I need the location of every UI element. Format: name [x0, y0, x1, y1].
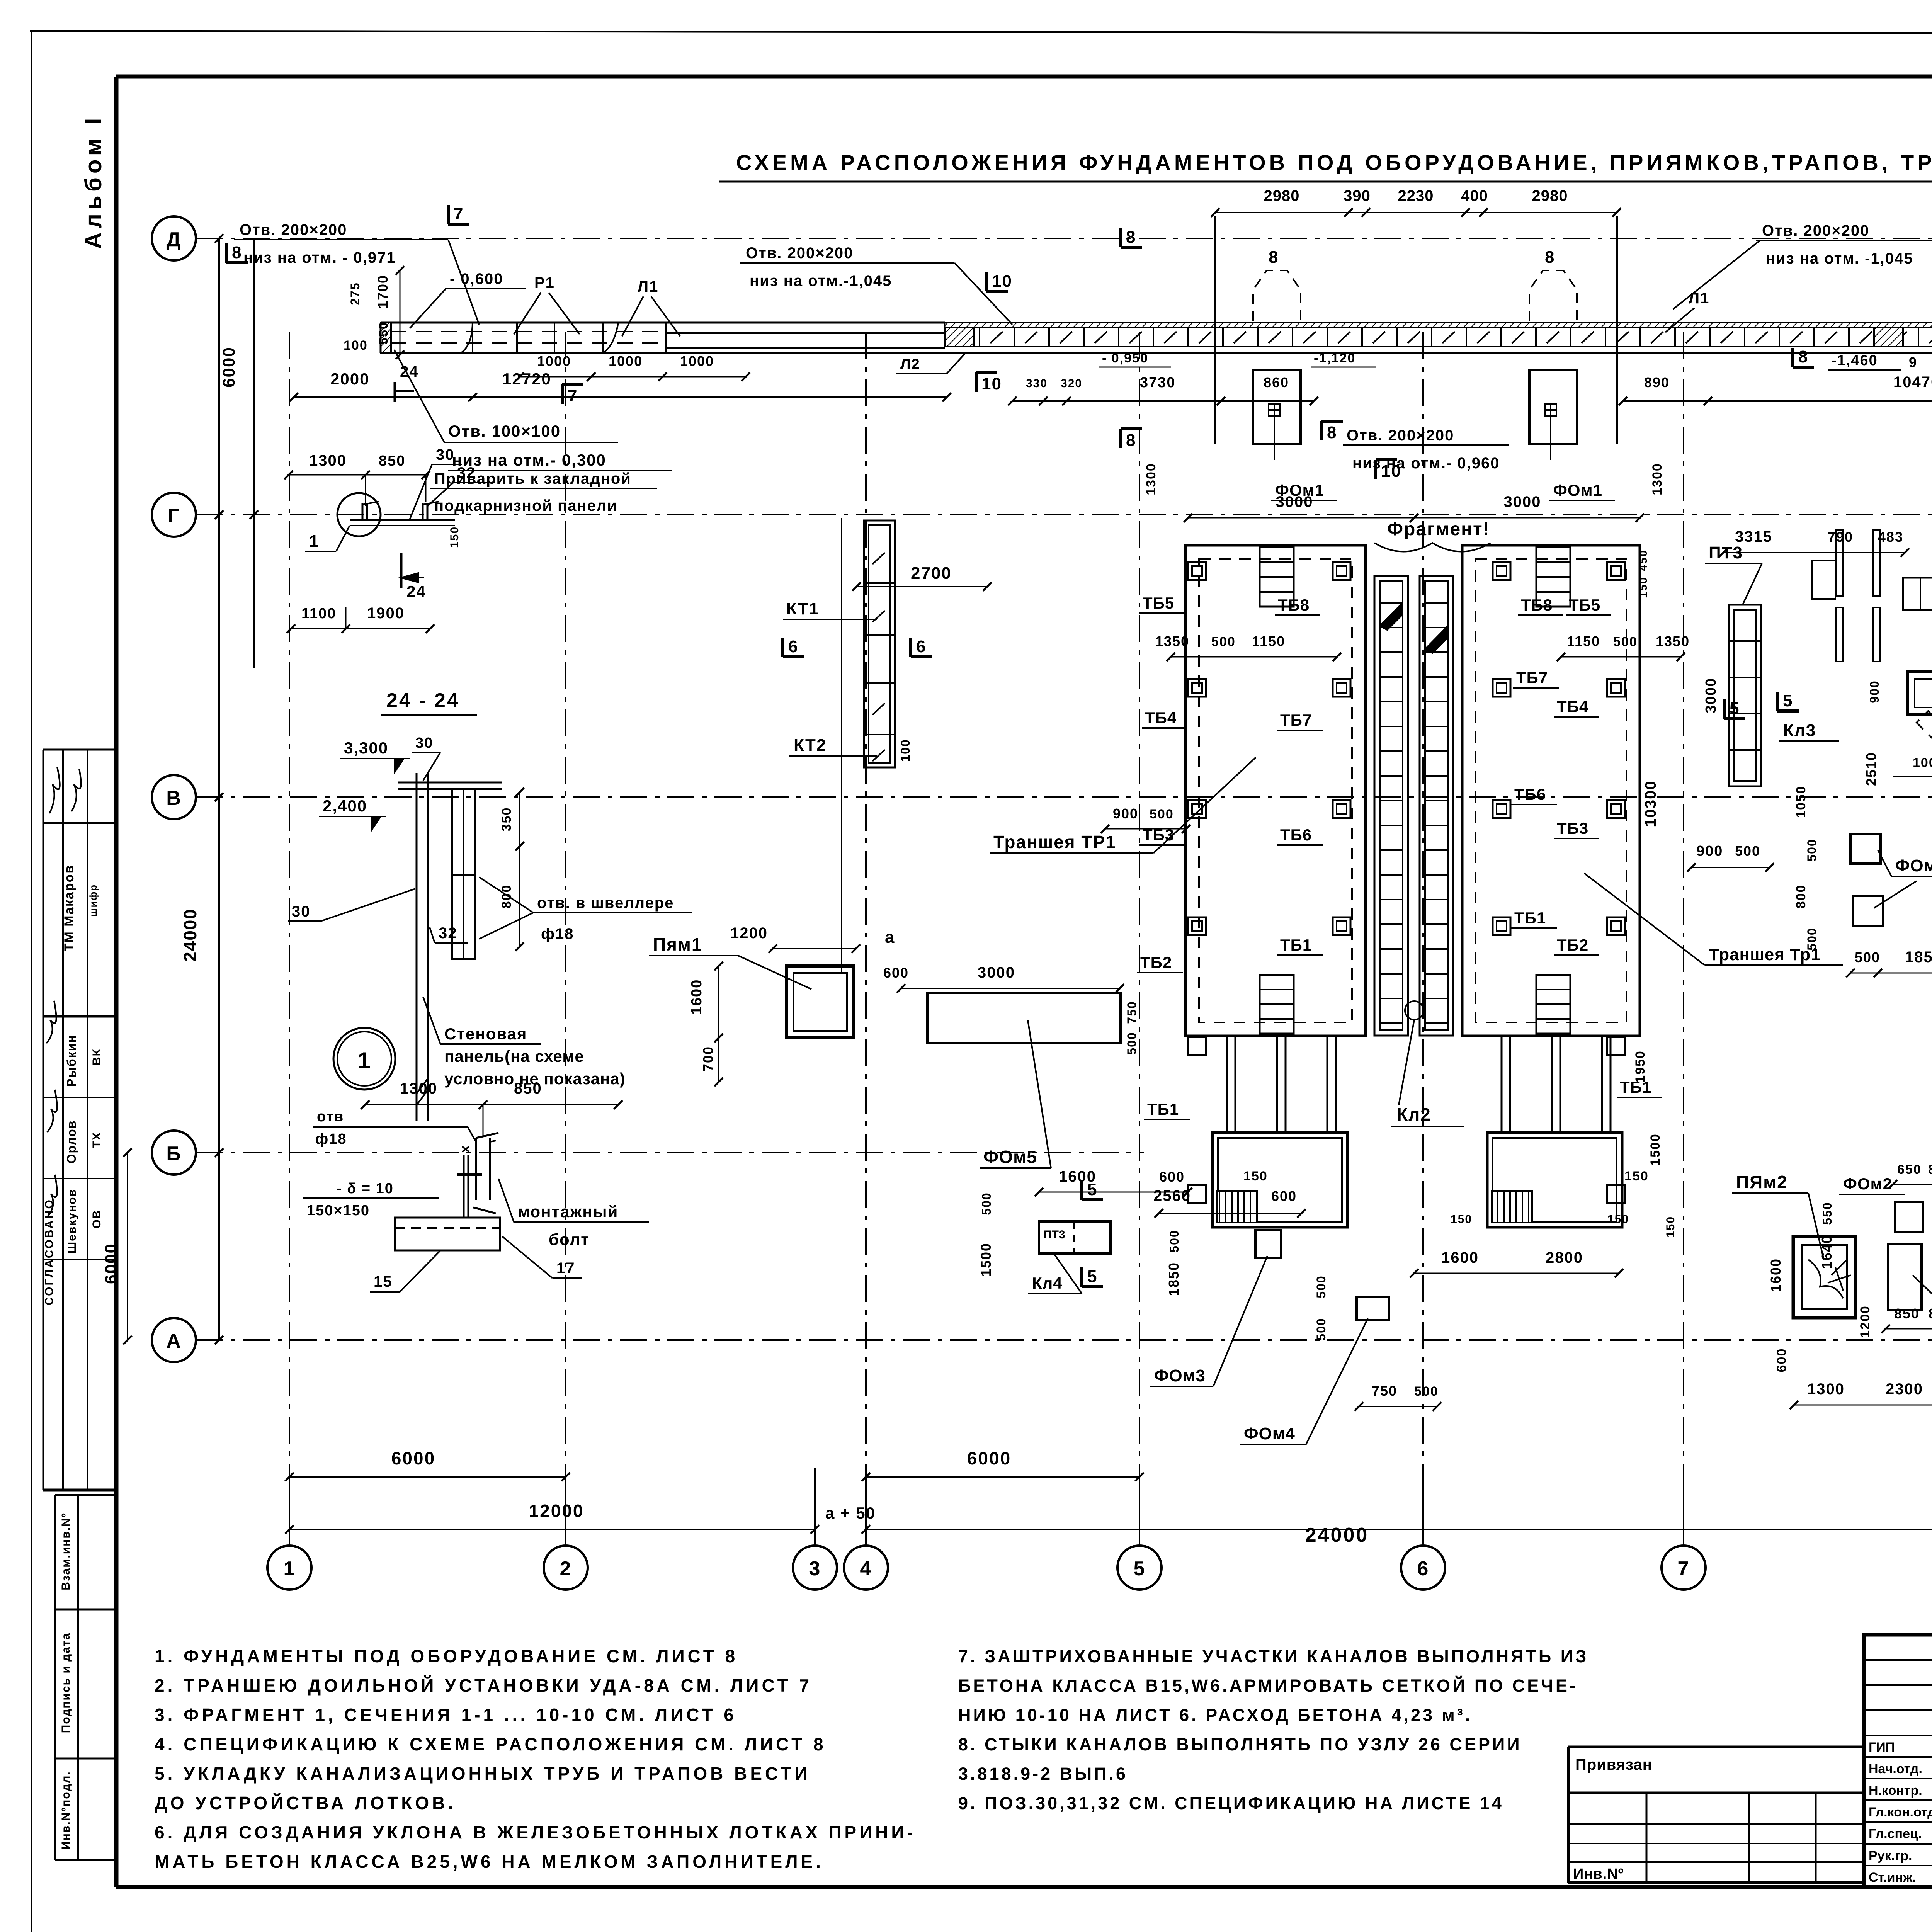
svg-text:Траншея ТР1: Траншея ТР1: [993, 832, 1116, 852]
svg-text:8: 8: [1269, 248, 1279, 267]
svg-text:-1,120: -1,120: [1314, 351, 1355, 366]
svg-text:483: 483: [1878, 529, 1903, 545]
svg-text:Рук.гр.: Рук.гр.: [1869, 1849, 1912, 1863]
svg-text:1: 1: [284, 1558, 296, 1580]
svg-text:30: 30: [415, 735, 433, 751]
svg-text:10300: 10300: [1642, 780, 1659, 827]
svg-text:1150: 1150: [1252, 633, 1285, 649]
svg-text:шифр: шифр: [87, 884, 99, 917]
svg-text:2700: 2700: [911, 564, 952, 583]
svg-text:Б: Б: [166, 1143, 181, 1165]
svg-text:600: 600: [1159, 1169, 1185, 1185]
svg-text:3730: 3730: [1140, 374, 1176, 391]
svg-text:ТБ4: ТБ4: [1145, 709, 1177, 727]
svg-text:5. УКЛАДКУ КАНАЛИЗАЦИОННЫХ ТРУ: 5. УКЛАДКУ КАНАЛИЗАЦИОННЫХ ТРУБ И ТРАПОВ…: [155, 1764, 810, 1784]
svg-text:5: 5: [1730, 699, 1740, 718]
svg-text:6000: 6000: [102, 1243, 121, 1284]
svg-text:1100: 1100: [301, 605, 336, 622]
svg-text:ф18: ф18: [541, 925, 574, 942]
svg-text:150×150: 150×150: [307, 1202, 370, 1219]
svg-text:-1,460: -1,460: [1832, 352, 1878, 369]
svg-text:ТХ: ТХ: [90, 1132, 103, 1148]
svg-text:ФОм5: ФОм5: [983, 1147, 1037, 1167]
svg-text:Взам.инв.Nº: Взам.инв.Nº: [60, 1512, 72, 1590]
svg-text:Отв. 200×200: Отв. 200×200: [240, 221, 347, 238]
svg-text:3000: 3000: [1276, 493, 1313, 510]
svg-text:800: 800: [499, 884, 514, 909]
svg-text:2510: 2510: [1863, 752, 1879, 786]
svg-text:монтажный: монтажный: [518, 1202, 618, 1221]
svg-text:ТБ7: ТБ7: [1516, 668, 1548, 687]
svg-text:15: 15: [374, 1273, 393, 1290]
svg-text:2: 2: [560, 1558, 572, 1580]
svg-text:24 - 24: 24 - 24: [386, 689, 460, 712]
svg-text:500: 500: [1125, 1032, 1139, 1054]
svg-text:панель(на схеме: панель(на схеме: [444, 1047, 584, 1065]
svg-text:1300: 1300: [1807, 1381, 1845, 1398]
svg-text:30: 30: [436, 446, 455, 463]
svg-text:8: 8: [232, 243, 242, 262]
svg-text:6: 6: [788, 637, 798, 656]
svg-text:550: 550: [376, 321, 390, 344]
svg-text:500: 500: [1414, 1384, 1439, 1399]
svg-text:Д: Д: [166, 228, 181, 251]
svg-text:2. ТРАНШЕЮ ДОИЛЬНОЙ УСТАНОВКИ: 2. ТРАНШЕЮ ДОИЛЬНОЙ УСТАНОВКИ УДА-8А СМ.…: [155, 1675, 812, 1696]
svg-text:750: 750: [1372, 1383, 1397, 1399]
svg-text:Отв. 200×200: Отв. 200×200: [1347, 427, 1454, 444]
svg-text:3. ФРАГМЕНТ 1, СЕЧЕНИЯ 1-1 ...: 3. ФРАГМЕНТ 1, СЕЧЕНИЯ 1-1 ... 10-10 СМ.…: [155, 1705, 737, 1725]
svg-text:низ на отм.- 0,960: низ на отм.- 0,960: [1352, 455, 1500, 472]
svg-text:3000: 3000: [1504, 493, 1541, 510]
svg-text:Отв. 200×200: Отв. 200×200: [746, 245, 853, 262]
svg-text:СХЕМА РАСПОЛОЖЕНИЯ ФУНДАМ: СХЕМА РАСПОЛОЖЕНИЯ ФУНДАМЕНТОВ ПОД ОБОРУ…: [736, 150, 1932, 175]
svg-text:Нач.отд.: Нач.отд.: [1869, 1762, 1922, 1776]
svg-text:100: 100: [344, 338, 368, 353]
svg-text:3.818.9-2 ВЫП.6: 3.818.9-2 ВЫП.6: [958, 1764, 1128, 1784]
svg-text:4: 4: [860, 1558, 872, 1580]
svg-text:7: 7: [1678, 1558, 1690, 1580]
svg-text:850: 850: [1894, 1306, 1920, 1321]
svg-text:150: 150: [1243, 1169, 1268, 1184]
svg-text:низ на отм. - 0,971: низ на отм. - 0,971: [243, 249, 396, 266]
svg-text:Рыбкин: Рыбкин: [65, 1034, 78, 1087]
svg-text:1350: 1350: [1656, 633, 1690, 649]
svg-text:ТБ1: ТБ1: [1280, 936, 1312, 954]
svg-text:А: А: [166, 1330, 182, 1352]
svg-text:ф18: ф18: [315, 1131, 347, 1147]
svg-text:ТБ5: ТБ5: [1569, 596, 1600, 614]
svg-text:ТБ6: ТБ6: [1280, 826, 1312, 844]
svg-text:600: 600: [883, 965, 909, 981]
svg-text:150: 150: [1637, 577, 1650, 598]
svg-text:8: 8: [1545, 248, 1555, 267]
svg-text:390: 390: [1344, 187, 1371, 204]
svg-text:ФОм1: ФОм1: [1553, 481, 1602, 499]
svg-text:750: 750: [1125, 1001, 1139, 1024]
svg-text:1700: 1700: [375, 275, 391, 309]
svg-text:Фрагмент!: Фрагмент!: [1387, 519, 1490, 539]
svg-text:12720: 12720: [502, 370, 551, 388]
svg-text:Инв.Nºподл.: Инв.Nºподл.: [60, 1771, 72, 1850]
svg-text:Траншея Тр1: Траншея Тр1: [1709, 945, 1821, 964]
svg-text:низ на отм. -1,045: низ на отм. -1,045: [1766, 250, 1913, 267]
svg-text:Л1: Л1: [1689, 290, 1709, 307]
svg-text:Инв.Nº: Инв.Nº: [1573, 1866, 1624, 1882]
svg-text:500: 500: [980, 1192, 993, 1215]
svg-text:ТБ7: ТБ7: [1280, 711, 1312, 729]
svg-text:2230: 2230: [1398, 187, 1434, 204]
svg-text:ФОм4: ФОм4: [1244, 1424, 1295, 1443]
svg-text:НИЮ 10-10 НА ЛИСТ 6. РАСХОД БЕ: НИЮ 10-10 НА ЛИСТ 6. РАСХОД БЕТОНА 4,23 …: [958, 1705, 1472, 1725]
svg-text:Привязан: Привязан: [1575, 1756, 1652, 1773]
svg-text:ТБ8: ТБ8: [1278, 596, 1310, 614]
svg-text:650: 650: [1897, 1162, 1922, 1177]
svg-text:24000: 24000: [1305, 1524, 1369, 1546]
svg-text:ПЯм2: ПЯм2: [1736, 1172, 1788, 1192]
svg-text:ДО УСТРОЙСТВА ЛОТКОВ.: ДО УСТРОЙСТВА ЛОТКОВ.: [155, 1793, 456, 1813]
svg-text:800: 800: [1928, 1162, 1932, 1177]
svg-text:330: 330: [1026, 377, 1048, 390]
svg-text:3: 3: [809, 1558, 821, 1580]
svg-text:800: 800: [1929, 1306, 1932, 1321]
svg-text:ТБ1: ТБ1: [1147, 1100, 1179, 1118]
svg-text:500: 500: [1314, 1318, 1328, 1340]
svg-text:Пям1: Пям1: [653, 934, 702, 954]
svg-text:350: 350: [499, 807, 514, 832]
svg-text:ТМ Макаров: ТМ Макаров: [62, 865, 77, 952]
svg-text:МАТЬ БЕТОН КЛАССА В25,W6 НА М: МАТЬ БЕТОН КЛАССА В25,W6 НА МЕЛКОМ ЗАПОЛ…: [155, 1852, 824, 1872]
svg-text:ТБ2: ТБ2: [1557, 936, 1588, 954]
svg-text:1600: 1600: [689, 979, 705, 1015]
svg-text:БЕТОНА КЛАССА В15,W6.АРМИРОВАТ: БЕТОНА КЛАССА В15,W6.АРМИРОВАТЬ СЕТКОЙ П…: [958, 1676, 1578, 1696]
svg-text:30: 30: [292, 903, 311, 920]
svg-text:Р1: Р1: [534, 274, 555, 291]
svg-text:900: 900: [1867, 680, 1881, 703]
svg-text:Стеновая: Стеновая: [444, 1025, 527, 1043]
svg-text:10470: 10470: [1893, 374, 1932, 391]
svg-text:9. ПОЗ.30,31,32 СМ. СПЕЦИФИКАЦ: 9. ПОЗ.30,31,32 СМ. СПЕЦИФИКАЦИЮ НА ЛИСТ…: [958, 1793, 1504, 1813]
svg-text:32: 32: [439, 925, 457, 942]
svg-text:1. ФУНДАМЕНТЫ ПОД ОБОРУДОВАНИЕ: 1. ФУНДАМЕНТЫ ПОД ОБОРУДОВАНИЕ СМ. ЛИСТ …: [155, 1646, 738, 1666]
svg-text:1350: 1350: [1155, 633, 1189, 649]
svg-text:1300: 1300: [1144, 463, 1158, 495]
svg-text:- 0,950: - 0,950: [1102, 351, 1148, 366]
svg-text:1050: 1050: [1794, 786, 1808, 818]
svg-text:150: 150: [1624, 1169, 1649, 1184]
svg-text:2980: 2980: [1532, 187, 1568, 204]
svg-text:1: 1: [309, 532, 319, 551]
svg-text:3,300: 3,300: [344, 739, 388, 757]
svg-text:а: а: [885, 928, 895, 947]
svg-text:12000: 12000: [529, 1501, 584, 1521]
svg-text:8: 8: [1327, 423, 1337, 442]
svg-text:1500: 1500: [978, 1243, 994, 1277]
svg-text:низ на отм.-1,045: низ на отм.-1,045: [750, 272, 892, 289]
svg-text:а + 50: а + 50: [825, 1504, 876, 1522]
svg-text:ТБ5: ТБ5: [1143, 594, 1174, 612]
svg-text:600: 600: [1774, 1348, 1789, 1372]
svg-text:1300: 1300: [400, 1080, 437, 1097]
svg-text:ТБ1: ТБ1: [1514, 909, 1546, 927]
svg-text:8: 8: [1126, 228, 1136, 247]
svg-text:ОВ: ОВ: [90, 1210, 103, 1229]
svg-text:500: 500: [1150, 807, 1174, 821]
svg-text:Альбом I: Альбом I: [80, 114, 106, 249]
svg-text:Приварить к закладной: Приварить к закладной: [434, 470, 631, 487]
svg-text:8: 8: [1126, 431, 1136, 450]
svg-text:отв: отв: [317, 1109, 344, 1125]
svg-text:850: 850: [379, 453, 405, 469]
svg-text:3000: 3000: [978, 964, 1015, 981]
svg-text:1000: 1000: [537, 353, 571, 369]
svg-text:1300: 1300: [1650, 463, 1665, 495]
svg-text:6000: 6000: [219, 347, 238, 388]
svg-text:2300: 2300: [1886, 1381, 1923, 1398]
svg-text:Гл.спец.: Гл.спец.: [1869, 1827, 1922, 1841]
svg-text:24: 24: [406, 582, 426, 600]
svg-text:- δ = 10: - δ = 10: [337, 1180, 394, 1197]
svg-text:2800: 2800: [1546, 1249, 1583, 1266]
svg-text:ТБ2: ТБ2: [1140, 953, 1172, 971]
svg-text:24000: 24000: [180, 908, 200, 962]
svg-text:В: В: [166, 787, 182, 810]
svg-text:Г: Г: [168, 505, 180, 527]
svg-text:8: 8: [1798, 347, 1808, 366]
svg-text:болт: болт: [549, 1230, 590, 1248]
svg-text:Орлов: Орлов: [65, 1120, 78, 1164]
svg-text:150: 150: [1451, 1213, 1472, 1226]
svg-text:1150: 1150: [1567, 633, 1600, 649]
svg-text:1850: 1850: [1166, 1262, 1182, 1296]
svg-text:550: 550: [1820, 1202, 1834, 1225]
svg-text:1500: 1500: [1648, 1133, 1663, 1166]
svg-text:КТ2: КТ2: [794, 736, 827, 755]
svg-text:5: 5: [1087, 1180, 1097, 1199]
svg-text:1300: 1300: [309, 452, 347, 469]
svg-text:ПТ3: ПТ3: [1043, 1228, 1065, 1241]
svg-text:1000: 1000: [1913, 755, 1932, 770]
svg-text:ТБ8: ТБ8: [1521, 596, 1553, 614]
svg-text:500: 500: [1167, 1230, 1181, 1252]
svg-text:5: 5: [1783, 691, 1793, 710]
svg-text:ФОм3: ФОм3: [1154, 1366, 1206, 1385]
svg-text:400: 400: [1461, 187, 1488, 204]
svg-text:Ст.инж.: Ст.инж.: [1869, 1870, 1916, 1885]
svg-text:6: 6: [1417, 1558, 1429, 1580]
svg-text:900: 900: [1696, 843, 1723, 859]
svg-text:Кл3: Кл3: [1783, 721, 1816, 740]
svg-text:Отв. 200×200: Отв. 200×200: [1762, 222, 1869, 239]
svg-text:7. ЗАШТРИХОВАННЫЕ УЧАСТКИ КАНА: 7. ЗАШТРИХОВАННЫЕ УЧАСТКИ КАНАЛОВ ВЫПОЛН…: [958, 1646, 1588, 1666]
svg-text:6000: 6000: [967, 1448, 1011, 1468]
svg-text:9: 9: [1909, 354, 1917, 370]
svg-text:ТБ3: ТБ3: [1557, 819, 1588, 837]
svg-text:500: 500: [1314, 1275, 1328, 1298]
svg-text:10: 10: [981, 374, 1002, 393]
svg-text:700: 700: [700, 1046, 716, 1071]
svg-text:7: 7: [568, 386, 578, 405]
svg-text:1900: 1900: [367, 605, 405, 622]
svg-text:1000: 1000: [609, 353, 643, 369]
svg-text:500: 500: [1211, 634, 1236, 649]
svg-text:150: 150: [1607, 1213, 1629, 1226]
svg-text:4. СПЕЦИФИКАЦИЮ К СХЕМЕ РАСПОЛ: 4. СПЕЦИФИКАЦИЮ К СХЕМЕ РАСПОЛОЖЕНИЯ СМ.…: [155, 1734, 827, 1754]
svg-text:6: 6: [916, 637, 926, 656]
svg-text:500: 500: [1855, 949, 1880, 965]
svg-text:отв. в швеллере: отв. в швеллере: [537, 895, 674, 912]
svg-text:Отв. 100×100: Отв. 100×100: [448, 422, 561, 440]
svg-text:ФОм2: ФОм2: [1843, 1175, 1892, 1193]
svg-text:900: 900: [1113, 806, 1138, 821]
svg-text:2,400: 2,400: [323, 797, 367, 815]
svg-text:100: 100: [898, 739, 912, 762]
svg-text:6000: 6000: [391, 1448, 435, 1468]
svg-text:1: 1: [357, 1048, 371, 1073]
svg-text:ГИП: ГИП: [1869, 1740, 1895, 1755]
svg-text:275: 275: [348, 282, 362, 305]
svg-text:2000: 2000: [330, 370, 369, 388]
svg-text:8. СТЫКИ КАНАЛОВ ВЫПОЛНЯТЬ ПО: 8. СТЫКИ КАНАЛОВ ВЫПОЛНЯТЬ ПО УЗЛУ 26 СЕ…: [958, 1735, 1522, 1754]
svg-text:1600: 1600: [1768, 1258, 1784, 1292]
svg-text:условно не показана): условно не показана): [444, 1070, 626, 1088]
svg-text:1000: 1000: [680, 353, 714, 369]
svg-text:890: 890: [1644, 374, 1670, 390]
svg-text:7: 7: [454, 204, 464, 223]
svg-text:10: 10: [992, 272, 1012, 291]
svg-text:Кл2: Кл2: [1397, 1104, 1431, 1124]
svg-text:1200: 1200: [730, 925, 768, 942]
svg-text:150: 150: [448, 526, 461, 548]
svg-text:1200: 1200: [1858, 1305, 1872, 1338]
svg-text:600: 600: [1271, 1188, 1297, 1204]
svg-text:Н.контр.: Н.контр.: [1869, 1783, 1922, 1798]
svg-text:Шевкунов: Шевкунов: [66, 1189, 78, 1253]
svg-text:1600: 1600: [1441, 1249, 1479, 1266]
svg-text:КТ1: КТ1: [786, 599, 819, 618]
svg-text:860: 860: [1264, 374, 1289, 390]
svg-text:5: 5: [1087, 1267, 1097, 1286]
svg-text:1850: 1850: [1905, 949, 1932, 966]
svg-text:1640: 1640: [1819, 1235, 1835, 1269]
svg-text:Л2: Л2: [900, 356, 920, 372]
svg-text:Гл.кон.отд: Гл.кон.отд: [1869, 1805, 1932, 1820]
svg-text:2980: 2980: [1264, 187, 1300, 204]
svg-text:320: 320: [1061, 377, 1082, 390]
svg-text:5: 5: [1134, 1558, 1146, 1580]
svg-text:790: 790: [1828, 529, 1853, 545]
svg-text:Подпись и дата: Подпись и дата: [60, 1633, 72, 1733]
svg-text:- 0,600: - 0,600: [450, 270, 503, 287]
svg-text:500: 500: [1805, 838, 1819, 861]
svg-text:17: 17: [556, 1260, 575, 1277]
svg-text:ТБ4: ТБ4: [1557, 697, 1588, 716]
svg-text:ФОм9: ФОм9: [1895, 856, 1932, 875]
svg-text:3000: 3000: [1703, 678, 1719, 714]
svg-text:150: 150: [1664, 1216, 1677, 1238]
svg-text:Кл4: Кл4: [1032, 1274, 1063, 1292]
svg-text:500: 500: [1735, 843, 1760, 859]
svg-text:Л1: Л1: [638, 278, 658, 295]
svg-text:ВК: ВК: [90, 1048, 103, 1065]
svg-text:450: 450: [1637, 549, 1650, 571]
svg-text:800: 800: [1794, 884, 1808, 909]
svg-text:ТБ6: ТБ6: [1514, 785, 1546, 803]
svg-text:6. ДЛЯ СОЗДАНИЯ УКЛОНА В ЖЕЛЕЗ: 6. ДЛЯ СОЗДАНИЯ УКЛОНА В ЖЕЛЕЗОБЕТОННЫХ …: [155, 1822, 916, 1842]
svg-text:3315: 3315: [1735, 528, 1772, 545]
svg-text:подкарнизной панели: подкарнизной панели: [434, 497, 617, 514]
svg-text:500: 500: [1613, 634, 1638, 649]
svg-text:1950: 1950: [1633, 1050, 1648, 1083]
